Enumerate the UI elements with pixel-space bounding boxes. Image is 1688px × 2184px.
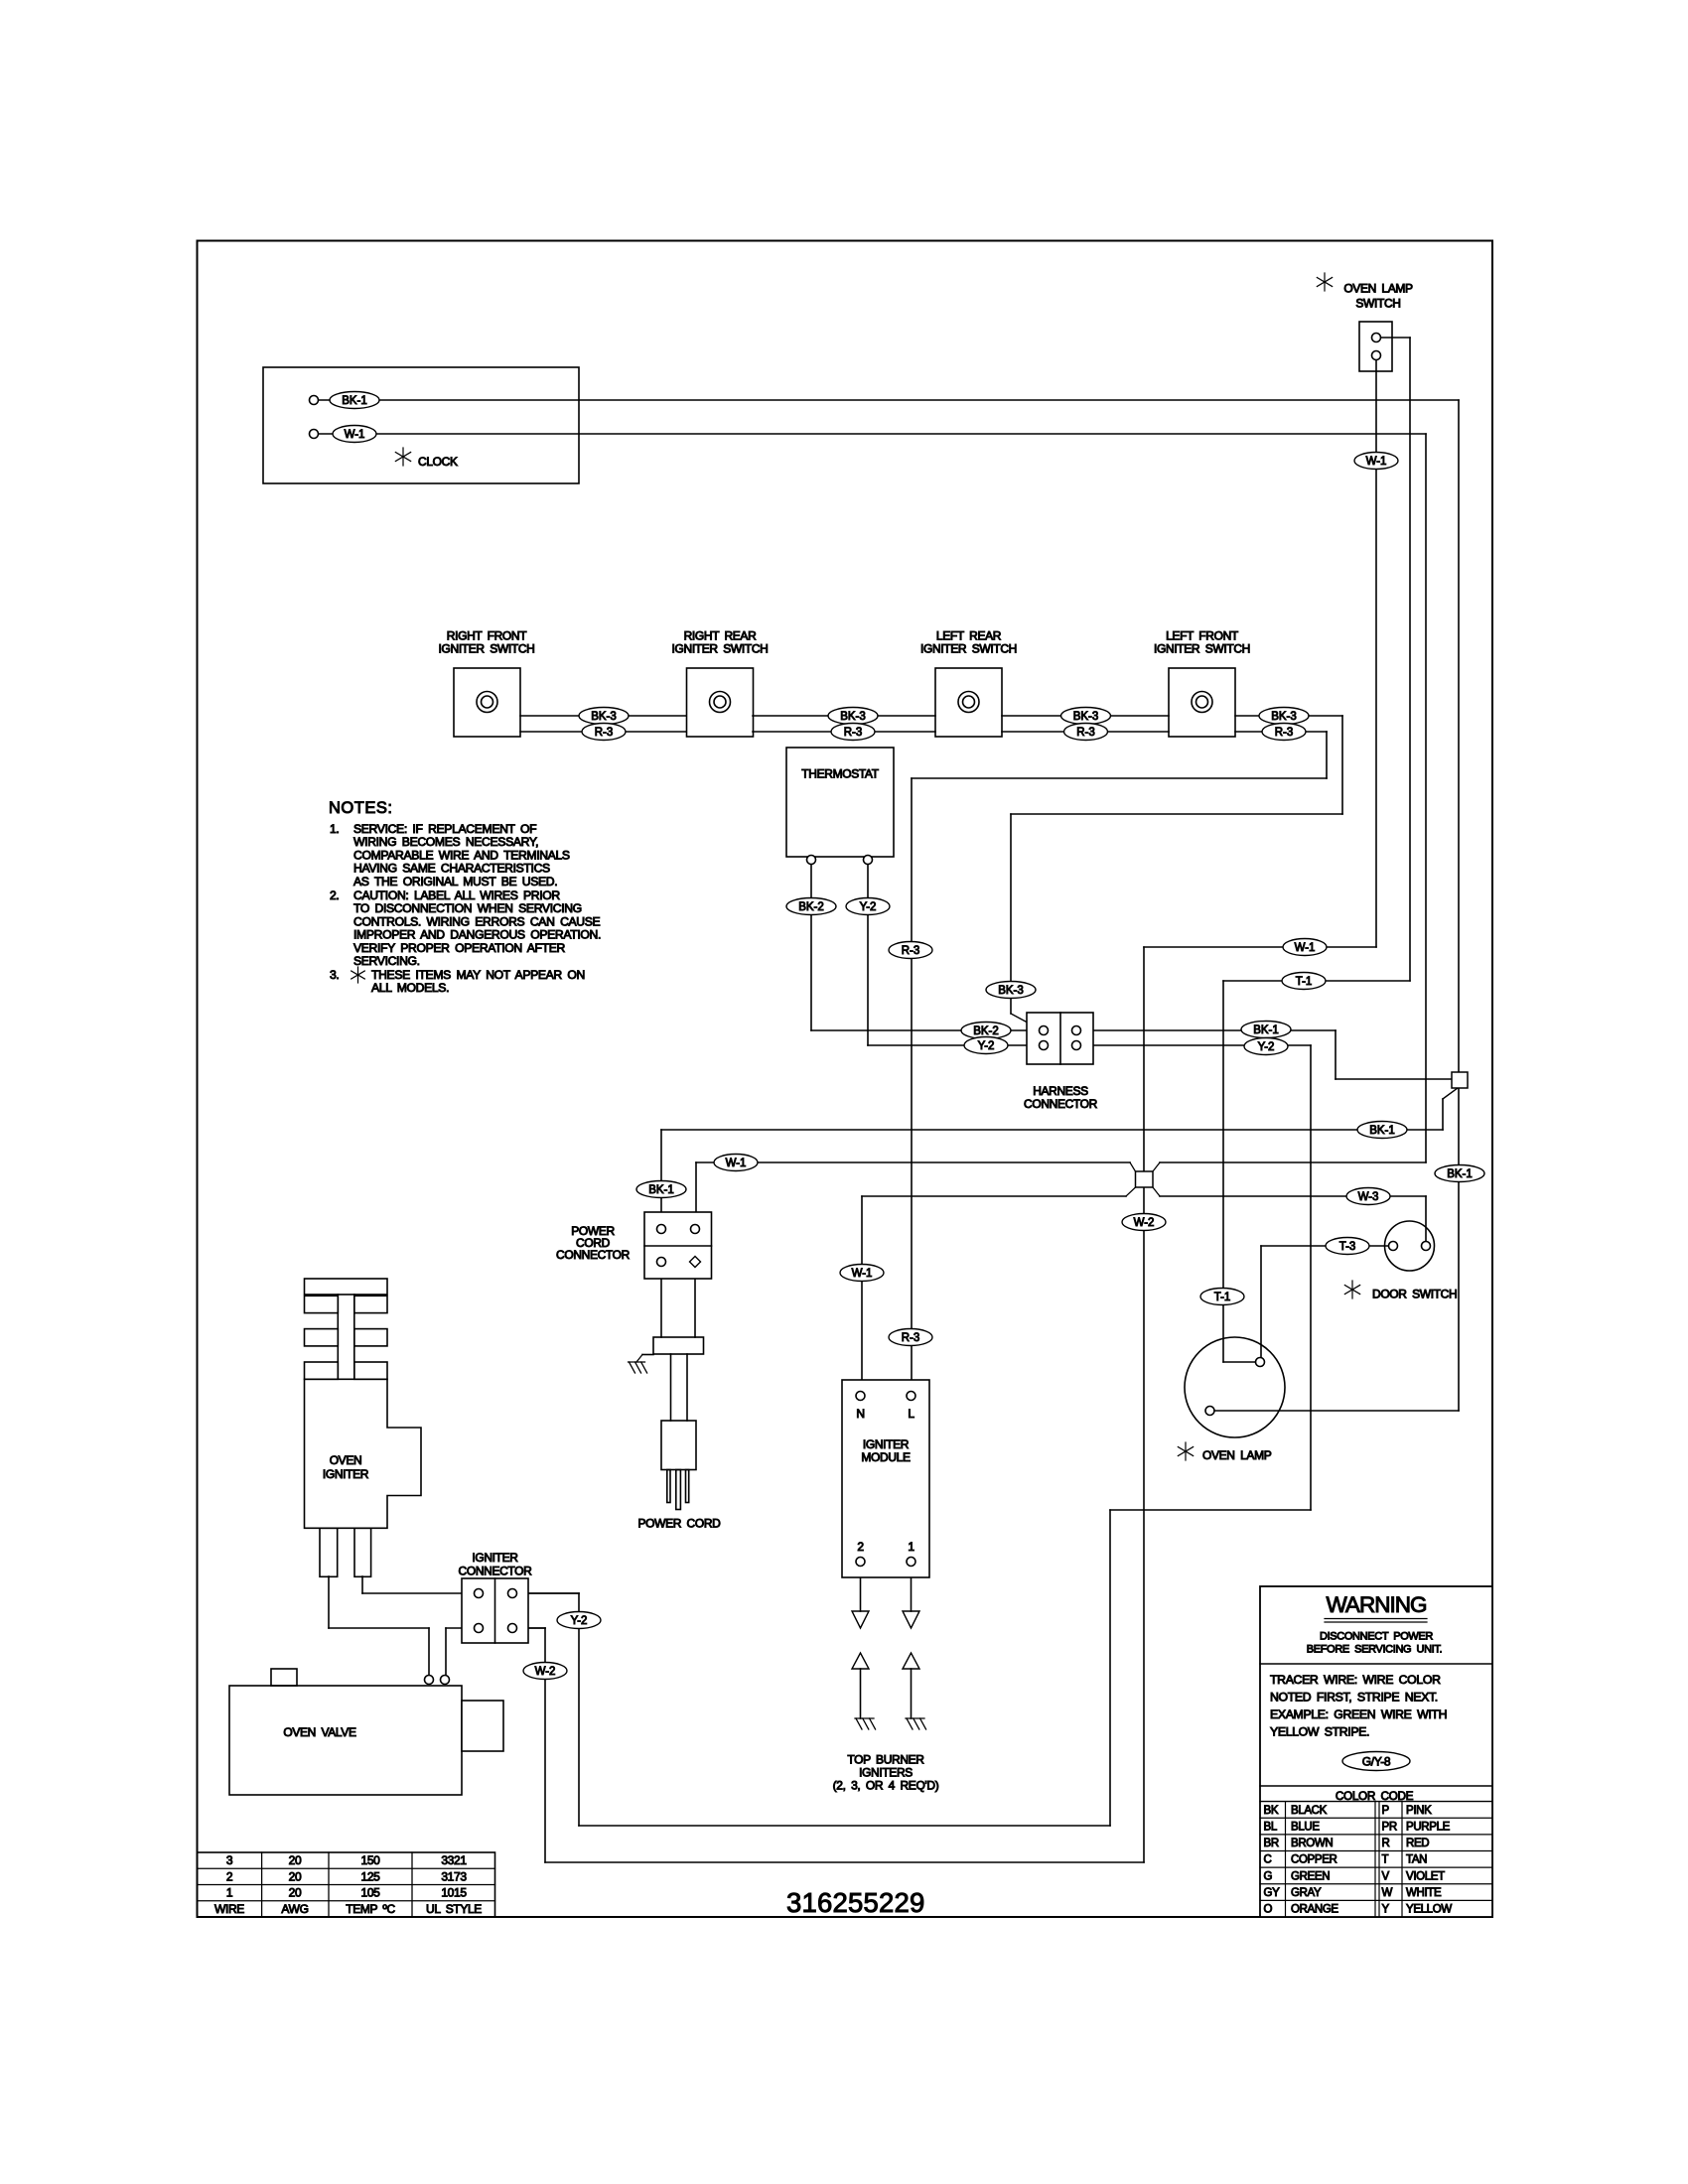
svg-text:MODULE: MODULE	[861, 1450, 911, 1464]
svg-text:COPPER: COPPER	[1291, 1854, 1337, 1866]
svg-text:1: 1	[908, 1540, 914, 1554]
svg-text:3.: 3.	[330, 968, 339, 982]
svg-text:R: R	[1382, 1838, 1390, 1849]
svg-text:20: 20	[289, 1886, 302, 1900]
svg-text:BL: BL	[1264, 1821, 1278, 1833]
svg-text:BK-1: BK-1	[342, 395, 367, 407]
svg-text:T: T	[1382, 1854, 1389, 1866]
svg-text:EXAMPLE: GREEN WIRE WITH: EXAMPLE: GREEN WIRE WITH	[1270, 1707, 1447, 1721]
svg-text:TO DISCONNECTION WHEN SERVICIN: TO DISCONNECTION WHEN SERVICING	[353, 901, 582, 915]
svg-text:R-3: R-3	[844, 727, 863, 739]
svg-text:1.: 1.	[330, 822, 339, 836]
svg-text:W-2: W-2	[1134, 1217, 1155, 1229]
svg-text:CAUTION: LABEL ALL WIRES PRI: CAUTION: LABEL ALL WIRES PRIOR	[353, 888, 560, 902]
svg-text:COMPARABLE WIRE AND TERMINALS: COMPARABLE WIRE AND TERMINALS	[353, 848, 570, 862]
svg-text:VIOLET: VIOLET	[1406, 1870, 1445, 1882]
svg-text:PR: PR	[1382, 1821, 1397, 1833]
svg-text:IGNITER: IGNITER	[863, 1437, 910, 1451]
svg-text:R-3: R-3	[902, 945, 920, 957]
svg-text:DOOR SWITCH: DOOR SWITCH	[1372, 1288, 1457, 1301]
svg-text:W-1: W-1	[852, 1268, 873, 1280]
svg-text:AS THE ORIGINAL MUST BE USED.: AS THE ORIGINAL MUST BE USED.	[353, 875, 557, 888]
svg-text:IGNITER SWITCH: IGNITER SWITCH	[1154, 642, 1250, 656]
svg-text:HARNESS: HARNESS	[1033, 1084, 1088, 1098]
svg-text:GREEN: GREEN	[1291, 1870, 1330, 1882]
svg-text:BLUE: BLUE	[1291, 1821, 1320, 1833]
svg-text:POWER CORD: POWER CORD	[637, 1517, 721, 1531]
svg-text:L: L	[908, 1407, 914, 1421]
svg-text:W-1: W-1	[1295, 942, 1316, 954]
svg-text:IGNITER SWITCH: IGNITER SWITCH	[439, 642, 535, 656]
svg-text:BK-3: BK-3	[1073, 711, 1099, 723]
svg-text:WARNING: WARNING	[1327, 1592, 1427, 1617]
svg-text:G/Y-8: G/Y-8	[1362, 1755, 1391, 1769]
svg-text:BK-1: BK-1	[1369, 1125, 1395, 1137]
svg-text:HAVING SAME CHARACTERISTICS: HAVING SAME CHARACTERISTICS	[353, 862, 550, 876]
svg-text:W-1: W-1	[345, 429, 365, 441]
svg-text:WIRE: WIRE	[214, 1902, 244, 1916]
svg-text:T-3: T-3	[1339, 1241, 1356, 1253]
svg-text:OVEN: OVEN	[330, 1453, 362, 1467]
svg-text:GRAY: GRAY	[1291, 1887, 1322, 1899]
svg-text:TOP BURNER: TOP BURNER	[847, 1753, 924, 1767]
svg-text:BK-3: BK-3	[591, 711, 617, 723]
svg-text:BEFORE SERVICING UNIT.: BEFORE SERVICING UNIT.	[1307, 1644, 1443, 1656]
svg-text:W-1: W-1	[726, 1158, 747, 1169]
svg-text:BROWN: BROWN	[1291, 1838, 1333, 1849]
svg-text:Y-2: Y-2	[1258, 1041, 1275, 1053]
svg-text:2: 2	[857, 1540, 864, 1554]
svg-text:THERMOSTAT: THERMOSTAT	[801, 767, 879, 781]
svg-text:SERVICING.: SERVICING.	[353, 954, 420, 968]
svg-text:T-1: T-1	[1214, 1292, 1231, 1303]
svg-text:BK-1: BK-1	[1253, 1024, 1279, 1036]
svg-text:W-1: W-1	[1366, 456, 1387, 468]
svg-text:OVEN LAMP: OVEN LAMP	[1343, 282, 1413, 296]
svg-text:W: W	[1382, 1887, 1393, 1899]
svg-text:R-3: R-3	[902, 1332, 920, 1344]
svg-text:BK-3: BK-3	[998, 985, 1024, 997]
svg-text:SWITCH: SWITCH	[1355, 297, 1400, 311]
svg-text:150: 150	[361, 1853, 381, 1867]
svg-text:W-3: W-3	[1358, 1191, 1379, 1203]
svg-text:OVEN VALVE: OVEN VALVE	[283, 1725, 356, 1739]
svg-text:CONTROLS. WIRING ERRORS CAN: CONTROLS. WIRING ERRORS CAN CAUSE	[353, 914, 601, 928]
svg-text:P: P	[1382, 1805, 1390, 1817]
svg-text:BLACK: BLACK	[1291, 1805, 1328, 1817]
svg-text:CONNECTOR: CONNECTOR	[556, 1248, 631, 1262]
svg-text:Y: Y	[1382, 1904, 1390, 1916]
svg-text:GY: GY	[1264, 1887, 1281, 1899]
svg-text:R-3: R-3	[595, 727, 614, 739]
svg-text:BK-1: BK-1	[1447, 1168, 1473, 1180]
svg-text:3173: 3173	[441, 1869, 467, 1883]
svg-text:W-2: W-2	[535, 1666, 556, 1678]
svg-text:PURPLE: PURPLE	[1406, 1821, 1451, 1833]
svg-text:BK-3: BK-3	[1271, 711, 1297, 723]
svg-text:CLOCK: CLOCK	[418, 455, 458, 469]
svg-text:1: 1	[226, 1886, 233, 1900]
svg-text:20: 20	[289, 1853, 302, 1867]
svg-text:316255229: 316255229	[786, 1887, 924, 1918]
svg-text:IGNITERS: IGNITERS	[859, 1766, 913, 1780]
svg-text:AWG: AWG	[281, 1902, 308, 1916]
svg-text:LEFT FRONT: LEFT FRONT	[1166, 629, 1239, 643]
svg-text:105: 105	[361, 1886, 381, 1900]
svg-text:R-3: R-3	[1076, 727, 1095, 739]
svg-text:LEFT REAR: LEFT REAR	[936, 629, 1002, 643]
svg-text:TEMP ºC: TEMP ºC	[346, 1902, 395, 1916]
svg-text:N: N	[856, 1407, 864, 1421]
svg-text:BK-2: BK-2	[973, 1025, 999, 1037]
svg-text:(2, 3, OR 4 REQ'D): (2, 3, OR 4 REQ'D)	[833, 1779, 939, 1793]
svg-text:YELLOW: YELLOW	[1406, 1904, 1452, 1916]
svg-text:2: 2	[226, 1869, 233, 1883]
svg-text:BK-1: BK-1	[648, 1184, 674, 1196]
svg-text:3: 3	[226, 1853, 233, 1867]
svg-text:ORANGE: ORANGE	[1291, 1904, 1338, 1916]
svg-text:V: V	[1382, 1870, 1390, 1882]
svg-text:IGNITER: IGNITER	[472, 1551, 518, 1565]
svg-text:BR: BR	[1264, 1838, 1279, 1849]
svg-text:YELLOW STRIPE.: YELLOW STRIPE.	[1270, 1725, 1369, 1739]
svg-text:IGNITER SWITCH: IGNITER SWITCH	[920, 642, 1017, 656]
svg-text:G: G	[1264, 1870, 1273, 1882]
svg-text:RED: RED	[1406, 1838, 1429, 1849]
svg-text:TRACER WIRE: WIRE COLOR: TRACER WIRE: WIRE COLOR	[1270, 1673, 1441, 1687]
svg-text:Y-2: Y-2	[571, 1615, 588, 1627]
svg-text:UL STYLE: UL STYLE	[426, 1902, 482, 1916]
svg-text:WHITE: WHITE	[1406, 1887, 1442, 1899]
svg-text:SERVICE: IF REPLACEMENT OF: SERVICE: IF REPLACEMENT OF	[353, 822, 536, 836]
svg-text:20: 20	[289, 1869, 302, 1883]
svg-text:WIRING BECOMES NECESSARY,: WIRING BECOMES NECESSARY,	[353, 835, 538, 849]
svg-text:BK-3: BK-3	[840, 711, 866, 723]
svg-text:O: O	[1264, 1904, 1273, 1916]
svg-text:IGNITER SWITCH: IGNITER SWITCH	[672, 642, 769, 656]
svg-text:2.: 2.	[330, 888, 339, 902]
svg-text:3321: 3321	[441, 1853, 467, 1867]
svg-text:T-1: T-1	[1296, 976, 1313, 988]
svg-text:THESE ITEMS MAY NOT APPEAR ON: THESE ITEMS MAY NOT APPEAR ON	[371, 968, 585, 982]
svg-text:NOTES:: NOTES:	[329, 799, 392, 817]
svg-text:BK: BK	[1264, 1805, 1279, 1817]
svg-text:VERIFY PROPER OPERATION AFTER: VERIFY PROPER OPERATION AFTER	[353, 941, 565, 955]
svg-text:CONNECTOR: CONNECTOR	[459, 1565, 533, 1578]
svg-text:NOTED FIRST, STRIPE NEXT.: NOTED FIRST, STRIPE NEXT.	[1270, 1691, 1438, 1705]
svg-text:1015: 1015	[441, 1886, 467, 1900]
svg-text:OVEN LAMP: OVEN LAMP	[1202, 1448, 1272, 1462]
svg-text:Y-2: Y-2	[860, 901, 877, 913]
svg-text:TAN: TAN	[1406, 1854, 1427, 1866]
svg-text:R-3: R-3	[1275, 727, 1294, 739]
svg-text:BK-2: BK-2	[798, 901, 824, 913]
svg-text:RIGHT FRONT: RIGHT FRONT	[447, 629, 527, 643]
svg-text:RIGHT REAR: RIGHT REAR	[684, 629, 757, 643]
svg-text:C: C	[1264, 1854, 1272, 1866]
svg-text:IGNITER: IGNITER	[323, 1467, 369, 1481]
svg-text:PINK: PINK	[1406, 1805, 1432, 1817]
svg-text:CONNECTOR: CONNECTOR	[1024, 1097, 1098, 1111]
svg-text:ALL MODELS.: ALL MODELS.	[371, 981, 449, 995]
svg-text:125: 125	[361, 1869, 381, 1883]
svg-text:DISCONNECT POWER: DISCONNECT POWER	[1320, 1631, 1433, 1643]
svg-text:Y-2: Y-2	[978, 1040, 995, 1052]
svg-text:IMPROPER AND DANGEROUS OPERATI: IMPROPER AND DANGEROUS OPERATION.	[353, 928, 601, 942]
